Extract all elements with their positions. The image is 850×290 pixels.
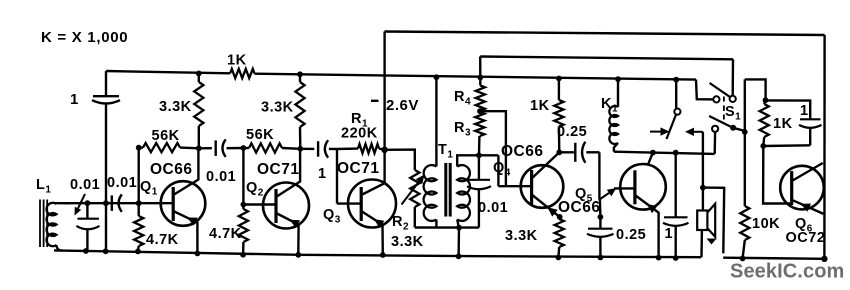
svg-text:10K: 10K	[752, 216, 780, 232]
node Q5 bypass rail	[598, 255, 604, 261]
node rail-R4	[477, 75, 483, 81]
wire T1 bottom to rail	[457, 228, 460, 257]
capacitor 1 (input decoupling)	[105, 71, 107, 96]
wire Q5 base drop	[598, 152, 600, 199]
node 10K rail	[740, 256, 746, 262]
node R4-R3 junction	[477, 108, 483, 114]
capacitor 1 (Q5 collector)	[675, 153, 677, 217]
node T1 ground rail	[456, 253, 462, 259]
resistor 1K (Q4 collector load)	[558, 79, 560, 101]
svg-text:1: 1	[318, 166, 327, 182]
wire Q2 base stub	[243, 203, 276, 205]
wire R2/T1 bottom bus	[415, 226, 479, 229]
node Q1 bias rail	[135, 249, 141, 255]
svg-text:K = X 1,000: K = X 1,000	[41, 29, 128, 46]
annotation arrow to trimmer	[78, 194, 85, 208]
wire Q1 base line	[137, 148, 139, 216]
node Q6 network top	[763, 97, 769, 103]
resistor R4	[476, 86, 485, 111]
wire Q3 collector stub	[383, 150, 385, 183]
resistor 10K	[740, 206, 749, 240]
svg-text:0.25: 0.25	[557, 124, 587, 140]
node rail-3.3K Q2	[297, 71, 303, 77]
wire collector to R2	[385, 150, 415, 170]
switch S1 upper blade	[710, 83, 730, 97]
svg-text:0.01: 0.01	[478, 200, 508, 216]
svg-text:2.6V: 2.6V	[386, 97, 419, 114]
node tank-cap top	[85, 200, 91, 206]
wire speaker bottom lead	[700, 230, 703, 257]
transistor Q3 OC71	[348, 180, 396, 228]
svg-text:0.25: 0.25	[616, 227, 646, 243]
coil L1 core bars	[39, 200, 41, 248]
resistor R2 3.3K (variable)	[410, 170, 419, 207]
capacitor 0.01 (Q1 input coupling)	[111, 195, 113, 211]
resistor 3.3K (Q1 collector load)	[198, 73, 200, 82]
node rail-T1	[434, 74, 440, 80]
wire Q4 base stub	[498, 185, 531, 187]
svg-text:OC71: OC71	[257, 161, 300, 178]
svg-text:3.3K: 3.3K	[505, 228, 538, 244]
arrow R2 wiper	[402, 182, 420, 205]
wire Q3 base line	[336, 149, 338, 204]
node Q2 base top	[241, 145, 247, 151]
node Q2 emitter rail	[295, 252, 301, 258]
wire T1 primary top lead	[435, 77, 437, 166]
svg-text:56K: 56K	[246, 127, 274, 143]
node Q6 network bottom	[760, 143, 766, 149]
inductor K1 relay coil	[609, 106, 618, 144]
resistor 4.7K (Q2 emitter bias)	[239, 209, 248, 242]
node IF secondary top	[476, 152, 482, 158]
svg-text:0.01: 0.01	[206, 169, 236, 185]
transistor Q1 OC66	[161, 181, 206, 226]
switch S1 lower left terminal	[712, 126, 718, 132]
node Q2 collector	[297, 146, 303, 152]
node Q3 emitter rail	[380, 252, 386, 258]
svg-text:OC66: OC66	[558, 199, 601, 216]
wire armature drop	[702, 132, 704, 210]
wire inner left corner	[479, 57, 481, 78]
wire S1 left drop	[714, 132, 717, 154]
node rail-contact	[673, 77, 679, 83]
node speaker tee	[700, 185, 706, 191]
wire inner top (R4 to S1)	[480, 57, 733, 60]
svg-text:1: 1	[665, 226, 674, 242]
resistor 4.7K (Q1 emitter bias)	[134, 216, 143, 246]
node rail-3.3K	[196, 71, 202, 77]
node Q1 base	[136, 200, 142, 206]
wire relay contact feed	[675, 80, 677, 109]
wire Q1 base stub	[139, 202, 173, 204]
label minus sign	[371, 100, 379, 102]
svg-text:1K: 1K	[773, 116, 793, 132]
wire top rail right segment	[255, 74, 697, 80]
relay K1 contact blade	[667, 115, 676, 139]
wire Q5 collector bus	[614, 152, 715, 154]
svg-text:OC71: OC71	[337, 160, 380, 177]
svg-text:56K: 56K	[152, 128, 180, 144]
relay K1 armature arrow right	[694, 131, 703, 133]
node Q1 base top	[136, 145, 142, 151]
capacitor 1 (Q2-Q3 coupling)	[300, 148, 314, 150]
wire top rail right corner to S1	[696, 80, 713, 100]
node Q3 collector	[381, 147, 388, 154]
switch S1 link dashes	[723, 97, 725, 102]
capacitor 0.01 (tank trimmer)	[86, 203, 88, 218]
node Q4 emitter	[557, 214, 563, 220]
svg-text:4.7K: 4.7K	[146, 232, 179, 248]
svg-text:220K: 220K	[341, 126, 378, 142]
inductor L1 winding	[47, 203, 57, 246]
capacitor 0.01 (IF tank)	[478, 155, 480, 179]
transistor Q2 OC71	[263, 183, 309, 229]
svg-text:OC66: OC66	[501, 143, 544, 160]
node cap1 rail	[673, 255, 679, 261]
node Q2 bias rail	[240, 252, 246, 258]
transformer T1 primary winding	[424, 165, 437, 221]
wire T1 primary bottom lead	[435, 220, 437, 228]
switch S1 upper left terminal	[713, 96, 719, 102]
wire K1 top lead	[617, 79, 619, 107]
wire R4R3 junction to Q4 base	[480, 111, 506, 186]
wire bypass link	[599, 200, 602, 218]
node cap1 top	[673, 150, 679, 156]
switch S1 lower blade	[709, 116, 731, 127]
wire Q4 base link	[497, 155, 499, 186]
svg-text:3.3K: 3.3K	[261, 100, 294, 116]
node cap1 rail left	[103, 248, 109, 254]
wire Q3 base stub	[337, 202, 361, 204]
node trimmer rail	[83, 248, 89, 254]
resistor 1K (top rail decoupling)	[230, 69, 255, 78]
wire top rail left segment	[106, 71, 230, 73]
node Q2 base	[241, 202, 247, 208]
capacitor 0.01 (Q1-Q2 coupling)	[199, 147, 212, 150]
node Q5 bypass top	[598, 214, 604, 220]
transistor Q6 OC72	[780, 166, 824, 210]
wire speaker loop	[703, 188, 724, 254]
resistor 3.3K (Q4 emitter)	[555, 219, 564, 247]
svg-text:1: 1	[800, 103, 809, 119]
switch S1 upper right terminal	[730, 96, 736, 102]
transformer T1 core	[444, 163, 447, 217]
svg-text:1K: 1K	[530, 98, 550, 114]
svg-text:OC66: OC66	[150, 161, 193, 178]
arrow Q5 base lead	[599, 193, 609, 200]
capacitor 1 (Q6)	[800, 118, 821, 120]
wire Q5 base stub	[614, 187, 635, 189]
wire outer top feedback	[385, 32, 825, 36]
node rail-1K	[556, 76, 562, 82]
svg-text:0.01: 0.01	[70, 177, 100, 193]
svg-text:OC72: OC72	[786, 230, 826, 246]
resistor R3	[475, 112, 484, 136]
relay K1 armature arrow left	[650, 131, 661, 133]
resistor R1 220K (Q3 bias)	[337, 147, 358, 150]
wire S1 lower link	[733, 128, 745, 131]
transistor Q5 OC66	[620, 164, 666, 210]
node T1 bottom	[456, 225, 462, 231]
wire Q2 base line	[242, 148, 244, 209]
wire S1 branch vertical	[744, 79, 746, 206]
wire cap branch top	[766, 100, 811, 118]
node rail end	[821, 256, 827, 262]
wire Q6 base line	[763, 146, 792, 204]
wire -2.6V supply line	[383, 32, 385, 150]
wire cap branch bottom	[763, 144, 810, 147]
resistor 56K (Q1 bias)	[139, 146, 143, 148]
wire bottom rail (main)	[54, 250, 701, 257]
wire bottom rail (right of speaker)	[723, 258, 824, 259]
transformer T1 secondary winding	[457, 165, 470, 221]
resistor 1K (Q6)	[764, 100, 765, 104]
wire K1 bottom lead	[614, 143, 618, 152]
wire supply bridge	[745, 79, 766, 100]
capacitor 0.25 (Q5 base bypass)	[599, 217, 601, 228]
node S1 branch	[742, 129, 748, 135]
wire S1 feed corner	[732, 59, 735, 95]
node rail-K1	[615, 76, 621, 82]
node Q5 emitter rail	[656, 255, 662, 261]
wire R4 line rail crossing	[479, 77, 481, 85]
transistor Q4 OC66	[521, 165, 564, 208]
wire T1 secondary top lead	[457, 155, 498, 166]
node Q1 emitter rail	[195, 251, 201, 257]
node tank top / cap1 line	[103, 200, 109, 206]
resistor 56K (Q2 bias)	[243, 147, 249, 149]
wire T1 secondary bottom lead	[457, 220, 459, 228]
capacitor 0.25 (Q4-Q5 coupling)	[559, 151, 575, 153]
resistor 3.3K (Q2 collector load)	[299, 74, 301, 82]
svg-text:1K: 1K	[227, 53, 247, 69]
svg-text:0.01: 0.01	[107, 175, 137, 191]
speaker	[697, 211, 707, 231]
wire tank top	[63, 202, 139, 204]
svg-text:4.7K: 4.7K	[209, 226, 242, 242]
svg-text:SeekIC.com: SeekIC.com	[730, 261, 844, 283]
wire right edge vertical	[823, 35, 826, 259]
node Q1 collector	[196, 145, 202, 151]
svg-text:1: 1	[70, 91, 79, 108]
wire R3 bottom lead	[478, 136, 481, 155]
switch S1 lower right terminal	[730, 125, 736, 131]
node Q4 collector	[556, 149, 562, 155]
node Q4 emitter rail	[556, 255, 562, 261]
svg-text:3.3K: 3.3K	[391, 234, 424, 250]
node Q5 collector	[650, 150, 656, 156]
svg-text:3.3K: 3.3K	[159, 99, 192, 115]
relay K1 fixed contact	[674, 109, 680, 115]
